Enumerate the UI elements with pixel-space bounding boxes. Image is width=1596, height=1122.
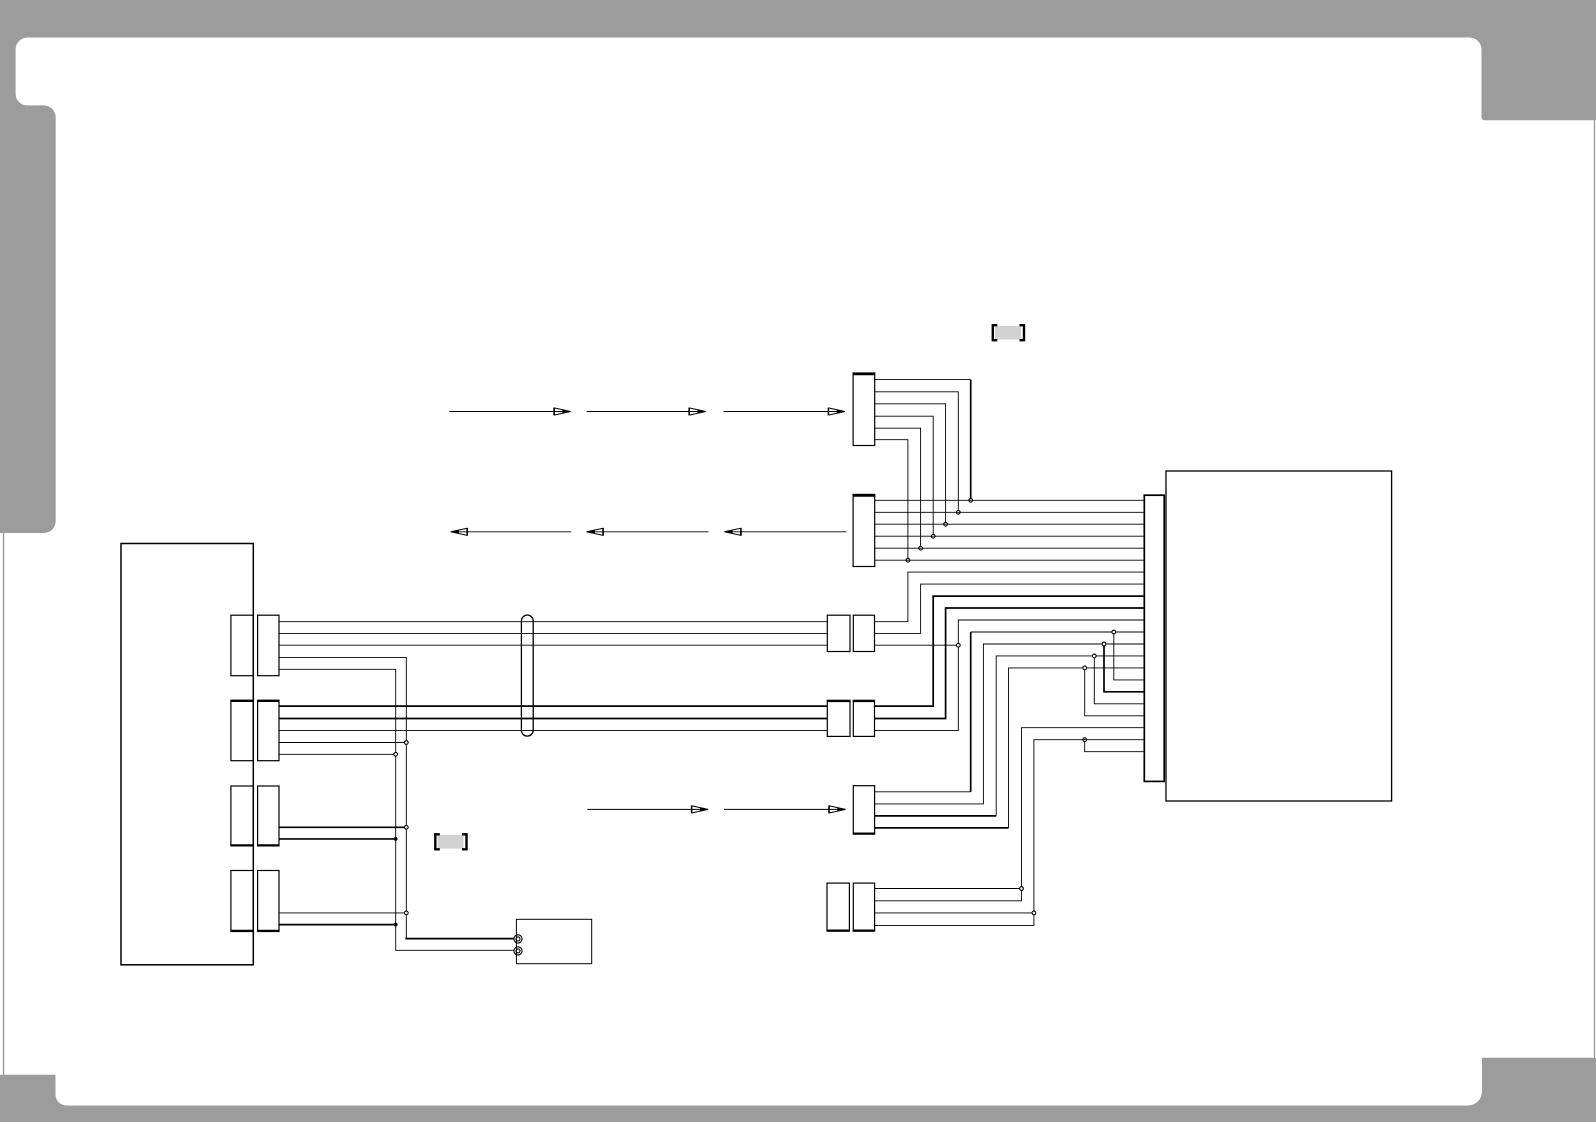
P2 wire5 to column B — [279, 753, 396, 755]
gray tag label top right — [993, 325, 1024, 340]
bottom pair wire2 riser to strip row k19 — [875, 728, 1145, 901]
branch drop k14->k18 — [1085, 668, 1145, 716]
branch drop k11->k15 — [1114, 632, 1145, 680]
connector pair P1 left half — [231, 615, 253, 676]
pair A wire3 to junction on riser — [875, 644, 959, 646]
branch drop k13->k17 — [1094, 656, 1144, 704]
bottom pair left half — [827, 883, 849, 931]
arrow row3 right #2 — [724, 808, 845, 810]
pair A wire1 staircase to strip row k6 — [875, 572, 1145, 622]
bottom pair thick bottom edges — [827, 930, 876, 932]
cable loop capsule — [521, 615, 533, 736]
mid pair B left half — [827, 700, 850, 736]
branch drop k12->k16 thick — [1104, 644, 1144, 692]
bottom pair wire1 to junction — [875, 888, 1022, 890]
page divider line right — [1594, 120, 1596, 1057]
connector pair P4 left half — [231, 871, 253, 932]
bottom pair right half — [853, 883, 874, 931]
CN-low wire2 riser to strip row k12 — [875, 644, 1145, 804]
connector pair P1 right half — [258, 615, 279, 676]
gray tag label near P3 — [435, 834, 466, 849]
arrow row1 right #2 — [587, 411, 705, 413]
connector CN-low — [853, 786, 874, 835]
IC connector strip — [1144, 495, 1164, 781]
connector CN-top — [853, 373, 875, 446]
page divider line left — [3, 533, 5, 1075]
left main box — [121, 544, 253, 965]
CN-low wire4 thick riser to strip row k14 — [875, 827, 1009, 829]
P2 wire4 to column A — [279, 742, 406, 744]
P2 thick top edges — [230, 700, 279, 702]
branch junction dots — [1083, 630, 1116, 741]
filled junction dots column B — [394, 837, 398, 926]
cable bundle P2 to pair B (thick,thick,thin) — [279, 706, 827, 718]
terminal circle lower — [514, 947, 522, 955]
junction dots column A — [394, 741, 408, 915]
P4 wire2 (thick) to column B — [279, 924, 396, 926]
pair B wire2 thick staircase to strip row k9 — [875, 608, 1145, 719]
P1 wire5 down to node column — [279, 669, 514, 950]
P3 wire2 to column B — [279, 838, 396, 840]
thick terminal feed overdraw — [406, 937, 514, 938]
CN-mid 6 bus wires to IC strip — [875, 500, 1145, 560]
CN-low wire1 riser to strip row k11 — [875, 791, 971, 793]
mid pair B right half — [853, 700, 874, 736]
terminal box (motor) — [516, 919, 591, 963]
connector pair P2 left half — [231, 700, 253, 761]
cable bundle P1 to pair A (3 wires) — [279, 622, 827, 646]
bottom pair junction dots — [1020, 887, 1036, 915]
connector CN-mid — [853, 494, 875, 566]
terminal circle upper — [514, 935, 522, 955]
mid pair A right half — [853, 615, 874, 651]
connector pair P4 right half — [258, 871, 279, 932]
P4 wire1 to column A — [279, 912, 406, 914]
junction dots on CN-mid rows — [906, 498, 973, 562]
arrow row1 right #3 — [724, 411, 844, 413]
P3 wire1 (thick) to column A — [279, 826, 406, 828]
junction pair A w3 x riser — [956, 643, 960, 647]
connector pair P2 right half — [258, 700, 279, 761]
P3 thick bottom edges — [230, 844, 279, 846]
CN-low wire3 thick riser to strip row k13 — [875, 815, 997, 817]
connector pair P3 left half — [231, 786, 253, 846]
CN-top fanout wires to junction columns — [875, 379, 971, 381]
pair A wire2 staircase to strip row k7 — [875, 584, 1145, 633]
bottom pair wire3 to junction — [875, 912, 1034, 914]
bottom pair wire4 riser to strip row k20 — [875, 740, 1145, 926]
connector pair P3 right half — [258, 786, 279, 846]
arrow row3 right #1 — [587, 808, 707, 810]
P4 thick bottom edges — [230, 930, 279, 932]
P1 wire4 down to node column — [279, 657, 514, 938]
mid pair A left half — [827, 615, 850, 651]
branch drop k20->k21 — [1085, 740, 1145, 752]
pair B wire1 thick staircase to strip row k8 — [875, 596, 1145, 706]
arrow row2 left #3 — [725, 531, 846, 533]
arrow row2 left #1 — [452, 531, 572, 533]
arrow row1 right #1 — [449, 411, 569, 413]
right main box — [1166, 471, 1392, 801]
pair B thick top edges — [827, 700, 875, 702]
pair B wire3 riser to strip row k10 — [875, 620, 1145, 730]
arrow row2 left #2 — [588, 531, 709, 533]
